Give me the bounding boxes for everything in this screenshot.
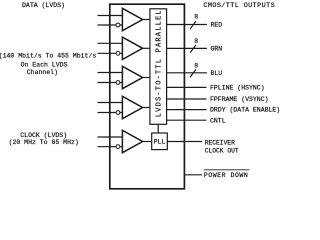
PLL block bbox=[152, 133, 168, 150]
svg-text:8: 8 bbox=[194, 38, 198, 45]
wire A3 output to converter bbox=[143, 77, 150, 79]
svg-text:CNTL: CNTL bbox=[210, 117, 226, 124]
wire inverter-to-PLL vertical connector bbox=[157, 124, 159, 133]
wire data input pair 1 positive bbox=[98, 15, 123, 17]
wire A4 output to converter bbox=[143, 107, 150, 109]
svg-text:(140 Mbit/s To 455 Mbit/s: (140 Mbit/s To 455 Mbit/s bbox=[0, 53, 96, 60]
inverting input bubble A3 bbox=[116, 81, 120, 85]
svg-text:DRDY (DATA ENABLE): DRDY (DATA ENABLE) bbox=[210, 107, 280, 114]
svg-text:LVDS-TO-TTL PARALLEL: LVDS-TO-TTL PARALLEL bbox=[156, 9, 164, 117]
svg-text:GRN: GRN bbox=[211, 46, 223, 53]
svg-text:FPLINE (HSYNC): FPLINE (HSYNC) bbox=[210, 85, 265, 92]
wire FPLINE output bbox=[167, 86, 207, 88]
svg-text:DATA (LVDS): DATA (LVDS) bbox=[22, 2, 65, 9]
wire CNTL output bbox=[167, 119, 207, 121]
LVDS receiver amplifier A3 bbox=[122, 66, 142, 88]
svg-text:Channel): Channel) bbox=[27, 69, 58, 76]
bus width slash GRN bbox=[190, 45, 196, 53]
bus width slash RED bbox=[190, 21, 196, 29]
wire RECEIVER CLOCK OUT bbox=[167, 141, 202, 143]
svg-text:CLOCK (LVDS): CLOCK (LVDS) bbox=[20, 132, 67, 139]
svg-text:8: 8 bbox=[194, 63, 198, 70]
LVDS receiver amplifier A1 bbox=[122, 8, 142, 30]
svg-text:BLU: BLU bbox=[211, 70, 223, 77]
wire A1 output to converter bbox=[143, 19, 150, 21]
inverting input bubble A5 bbox=[116, 145, 120, 149]
wire FPFRAME output bbox=[167, 98, 207, 100]
svg-text:FPFRAME (VSYNC): FPFRAME (VSYNC) bbox=[210, 96, 269, 103]
wire clock input negative bbox=[98, 146, 123, 148]
wire GRN output bus bbox=[167, 47, 207, 49]
wire data input pair 2 positive bbox=[98, 42, 123, 44]
LVDS clock receiver amplifier A5 bbox=[122, 130, 142, 152]
bus width slash BLU bbox=[190, 69, 196, 77]
svg-text:(20 MHz To 65 MHz): (20 MHz To 65 MHz) bbox=[9, 139, 79, 146]
svg-text:On Each LVDS: On Each LVDS bbox=[21, 61, 68, 68]
inverting input bubble A4 bbox=[116, 111, 120, 115]
inverting input bubble A1 bbox=[116, 23, 120, 27]
inverting input bubble A2 bbox=[116, 51, 120, 55]
receiver chip outer box U1 bbox=[110, 4, 185, 189]
svg-text:8: 8 bbox=[194, 13, 198, 20]
wire data input pair 4 positive bbox=[98, 102, 123, 104]
wire POWER DOWN input bbox=[184, 174, 202, 176]
wire data input pair 3 negative bbox=[98, 82, 123, 84]
wire data input pair 2 negative bbox=[98, 52, 123, 54]
wire clock input positive bbox=[98, 136, 123, 138]
LVDS receiver amplifier A2 bbox=[122, 37, 142, 59]
LVDS-to-TTL parallel converter block bbox=[150, 9, 167, 125]
wire DRDY output bbox=[167, 109, 207, 111]
wire data input pair 3 positive bbox=[98, 72, 123, 74]
wire A2 output to converter bbox=[143, 47, 150, 49]
svg-text:RECEIVER: RECEIVER bbox=[205, 139, 235, 146]
svg-text:CLOCK OUT: CLOCK OUT bbox=[205, 148, 239, 155]
wire data input pair 1 negative bbox=[98, 24, 123, 26]
wire RED output bus bbox=[167, 24, 207, 26]
overline of POWER DOWN bbox=[204, 169, 250, 171]
svg-text:POWER DOWN: POWER DOWN bbox=[204, 172, 249, 179]
svg-text:CMOS/TTL OUTPUTS: CMOS/TTL OUTPUTS bbox=[203, 2, 275, 10]
LVDS receiver amplifier A4 bbox=[122, 96, 142, 118]
svg-text:RED: RED bbox=[211, 22, 223, 29]
wire BLU output bus bbox=[167, 72, 207, 74]
svg-text:PLL: PLL bbox=[154, 139, 166, 146]
wire A5 output to PLL bbox=[143, 141, 152, 143]
wire data input pair 4 negative bbox=[98, 112, 123, 114]
